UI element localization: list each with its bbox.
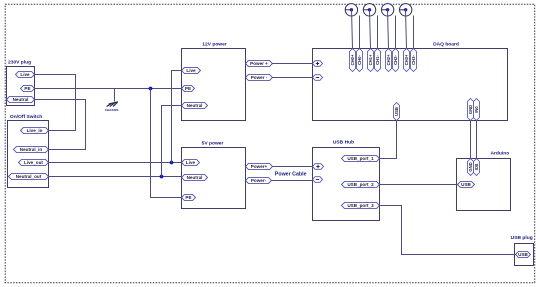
- wire Live plug to Live_in switch: [35, 75, 76, 131]
- svg-text:USB: USB: [394, 107, 399, 116]
- chassis ground symbol: [107, 102, 118, 106]
- sensor source circle TC2 above DAQ board: [381, 4, 393, 16]
- port Live_out (switch): [19, 159, 49, 165]
- port PE (230V plug): [21, 85, 35, 91]
- svg-text:Live: Live: [186, 68, 196, 73]
- wire TC3- to CH3-: [413, 16, 415, 49]
- svg-text:On/Off Switch: On/Off Switch: [10, 114, 42, 120]
- wire TC3+ to CH3+: [406, 10, 407, 49]
- svg-text:USB_port_2: USB_port_2: [347, 182, 374, 187]
- port - (USB Hub): [313, 177, 323, 183]
- svg-text:USB: USB: [518, 252, 528, 257]
- wire TC1- to CH1-: [377, 16, 379, 49]
- wire USB_port_3 to USB plug: [380, 206, 516, 255]
- port USB_port_3 (USB Hub): [342, 202, 380, 208]
- svg-text:USB_port_3: USB_port_3: [347, 203, 374, 208]
- svg-text:CH0+: CH0+: [350, 54, 355, 65]
- wire PE plug to 12V power PE: [35, 88, 182, 90]
- block 12V power: [182, 42, 246, 121]
- svg-text:Neutral: Neutral: [187, 175, 203, 180]
- port CH3+ (DAQ board): [404, 49, 410, 72]
- svg-text:Live_in: Live_in: [27, 128, 43, 133]
- block DAQ board: [313, 42, 508, 121]
- port Live (230V plug): [16, 71, 35, 77]
- svg-text:DAQ board: DAQ board: [433, 42, 459, 48]
- port CH0+ (DAQ board): [350, 49, 356, 72]
- svg-text:USB_port_1: USB_port_1: [347, 156, 374, 161]
- port IN0 (DAQ board): [474, 99, 480, 121]
- port CH0- (DAQ board): [357, 49, 363, 72]
- wire Live_out to 5V power Live: [49, 162, 182, 164]
- junction dot PE: [149, 87, 153, 91]
- port CH1- (DAQ board): [375, 49, 381, 72]
- wire TC0- to CH0-: [359, 16, 361, 49]
- svg-text:CH3-: CH3-: [411, 55, 416, 65]
- wire 12V Power+ to DAQ +: [273, 63, 313, 65]
- port GND (Arduino): [468, 159, 474, 176]
- port - (DAQ board): [313, 75, 323, 81]
- svg-text:Power Cable: Power Cable: [275, 172, 307, 178]
- wire Neutral_out to 5V power Neutral: [49, 176, 182, 178]
- port Neutral (12V power): [182, 102, 208, 108]
- sensor source circle TC0 above DAQ board: [345, 4, 357, 16]
- svg-text:USB Hub: USB Hub: [333, 139, 354, 145]
- svg-text:IN0: IN0: [474, 106, 479, 113]
- port Live_in (switch): [21, 127, 49, 133]
- svg-text:GND: GND: [468, 105, 473, 114]
- svg-text:CH2+: CH2+: [386, 54, 391, 65]
- port Power- (5V power): [246, 177, 272, 183]
- block USB Hub: [313, 139, 380, 220]
- svg-text:CHASSIS: CHASSIS: [105, 108, 119, 112]
- port Live (12V power): [182, 67, 201, 73]
- svg-text:Power +: Power +: [250, 61, 268, 66]
- svg-text:CH1-: CH1-: [375, 55, 380, 65]
- wire PE branch to 5V power PE: [151, 89, 182, 198]
- port PE (5V power): [182, 194, 196, 200]
- block USB plug: [511, 235, 534, 266]
- port PE (12V power): [182, 85, 195, 91]
- svg-text:GND: GND: [468, 162, 473, 171]
- wire Neutral plug to Neutral_in switch: [35, 100, 86, 150]
- port Live (5V power): [182, 159, 200, 165]
- port IO8 (Arduino): [474, 159, 480, 176]
- svg-text:CH0-: CH0-: [357, 55, 362, 65]
- block 5V power: [182, 141, 246, 209]
- port USB_port_1 (USB Hub): [342, 155, 380, 161]
- wire TC2+ to CH2+: [388, 10, 389, 49]
- svg-text:12V power: 12V power: [202, 42, 227, 48]
- junction dot Live: [170, 161, 174, 165]
- port Neutral (230V plug): [7, 96, 35, 102]
- port CH2- (DAQ board): [393, 49, 399, 72]
- port + (DAQ board): [313, 61, 323, 67]
- port CH2+ (DAQ board): [386, 49, 392, 72]
- block On/Off Switch: [8, 114, 49, 188]
- wire 5V Power- to USB Hub -: [272, 180, 313, 182]
- svg-text:Power+: Power+: [251, 164, 268, 169]
- svg-text:IO8: IO8: [474, 163, 479, 170]
- svg-text:Live: Live: [186, 160, 196, 165]
- port Power+ (5V power): [246, 163, 273, 169]
- wire USB_port_2 to Arduino USB: [380, 184, 458, 186]
- port Power + (12V power): [246, 60, 273, 66]
- svg-text:Live: Live: [20, 72, 30, 77]
- wire USB_port_1 to DAQ USB: [380, 121, 397, 159]
- svg-text:USB: USB: [461, 182, 471, 187]
- wire Neutral feeder to 12V power Neutral: [162, 106, 182, 177]
- svg-text:Neutral: Neutral: [13, 97, 29, 102]
- svg-text:Live_out: Live_out: [24, 160, 43, 165]
- svg-text:Power -: Power -: [251, 75, 268, 80]
- svg-text:5V power: 5V power: [202, 141, 224, 147]
- port USB_port_2 (USB Hub): [342, 181, 380, 187]
- port Power - (12V power): [246, 74, 273, 80]
- port USB (USB plug): [516, 251, 531, 257]
- block Arduino: [457, 151, 511, 211]
- svg-text:Arduino: Arduino: [490, 151, 509, 157]
- port CH1+ (DAQ board): [368, 49, 374, 72]
- svg-text:Neutral_out: Neutral_out: [16, 174, 42, 179]
- svg-text:Power-: Power-: [251, 178, 267, 183]
- svg-text:Neutral_in: Neutral_in: [20, 147, 43, 152]
- port Neutral (5V power): [182, 174, 208, 180]
- port Neutral_out (switch): [9, 173, 49, 179]
- port + (USB Hub): [313, 164, 324, 170]
- wire 5V Power+ to USB Hub +: [273, 166, 313, 168]
- wire TC2- to CH2-: [395, 16, 397, 49]
- wire DAQ GND to Arduino GND: [470, 121, 472, 159]
- junction dot Neutral: [160, 175, 164, 179]
- block 230V plug: [7, 59, 35, 105]
- port GND (DAQ board): [468, 99, 474, 121]
- svg-text:CH3+: CH3+: [404, 54, 409, 65]
- svg-text:PE: PE: [24, 86, 30, 91]
- wire chassis stub: [114, 89, 116, 102]
- port CH3- (DAQ board): [411, 49, 417, 72]
- wire TC0+ to CH0+: [352, 10, 353, 49]
- port USB (DAQ board): [394, 103, 400, 121]
- wire DAQ IN0 to Arduino IO8: [476, 121, 478, 159]
- wire Live feeder to 12V power Live: [172, 71, 182, 163]
- svg-text:USB plug: USB plug: [511, 235, 533, 241]
- wire 12V Power- to DAQ -: [273, 77, 313, 79]
- sensor source circle TC1 above DAQ board: [363, 4, 375, 16]
- svg-text:PE: PE: [185, 86, 191, 91]
- svg-text:230V plug: 230V plug: [8, 59, 31, 65]
- sensor source circle TC3 above DAQ board: [400, 4, 412, 16]
- svg-text:PE: PE: [185, 195, 191, 200]
- wire TC1+ to CH1+: [370, 10, 371, 49]
- svg-text:CH1+: CH1+: [368, 54, 373, 65]
- svg-text:CH2-: CH2-: [393, 55, 398, 65]
- port Neutral_in (switch): [14, 146, 49, 152]
- port USB (Arduino): [458, 181, 475, 187]
- svg-text:Neutral: Neutral: [187, 103, 203, 108]
